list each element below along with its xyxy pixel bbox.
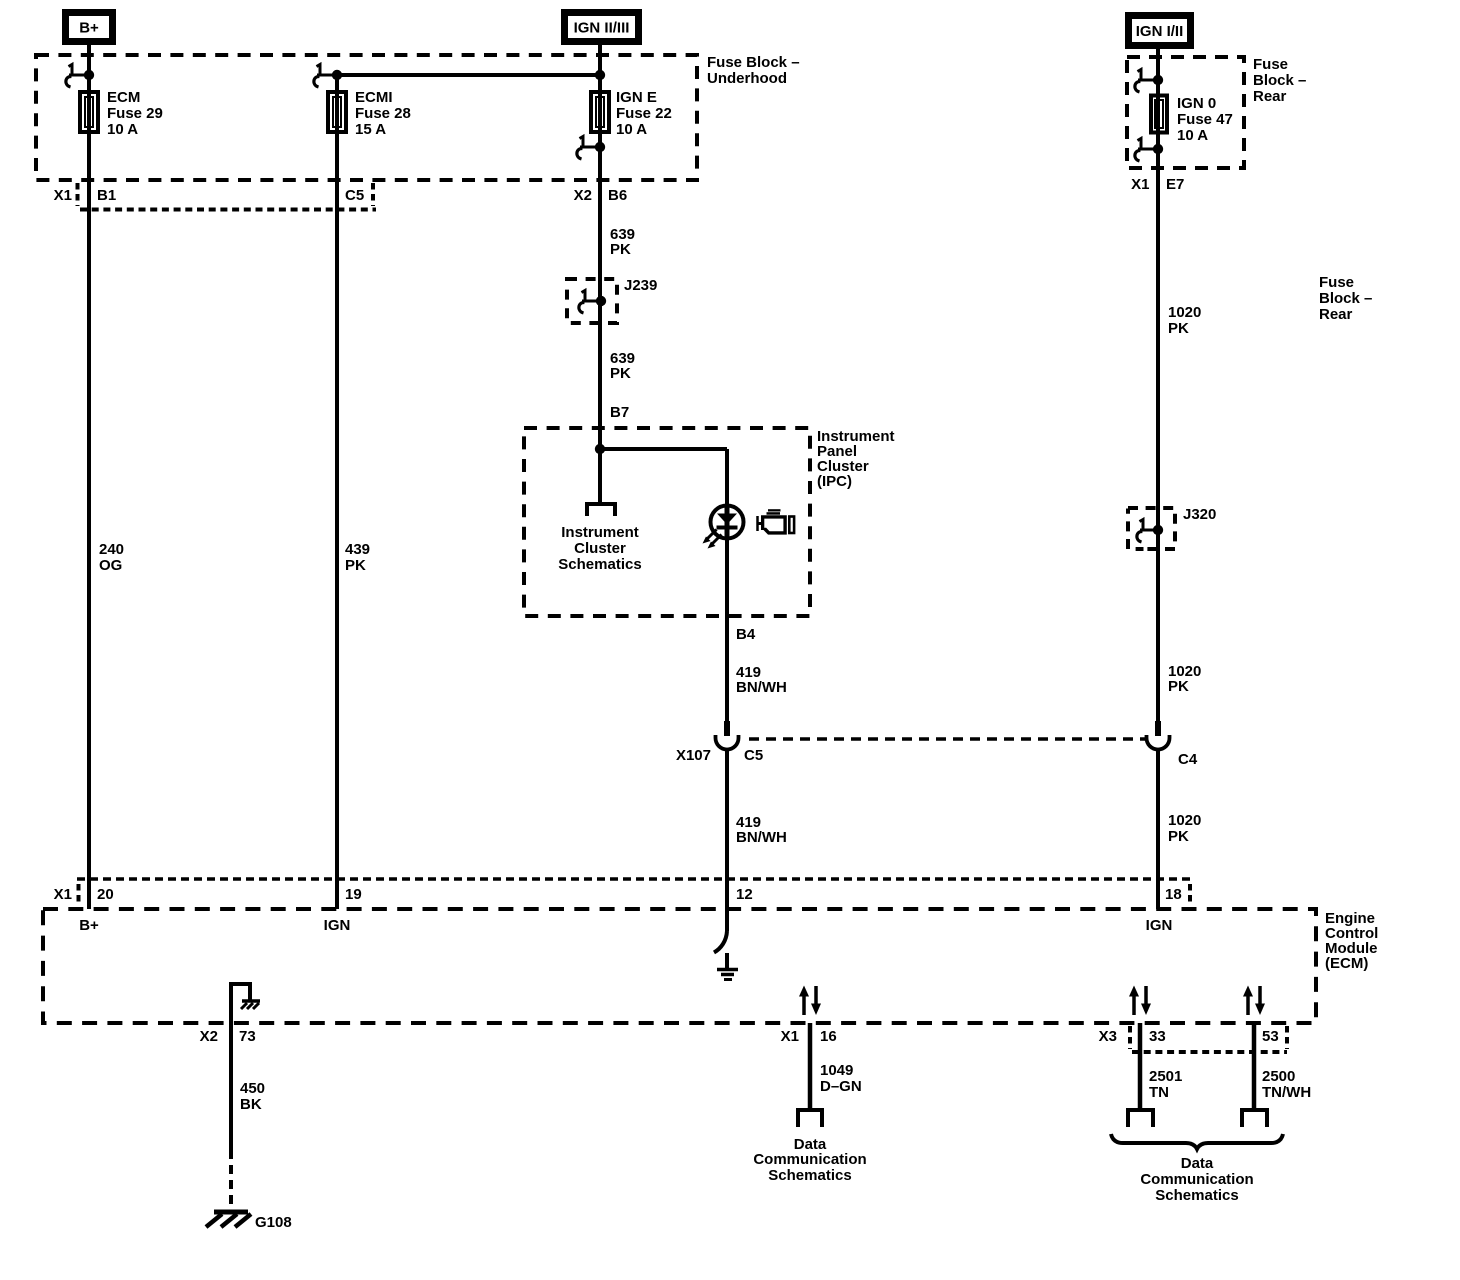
fuse IGN E Fuse 22	[591, 92, 609, 132]
svg-text:IGN: IGN	[1146, 917, 1173, 934]
svg-text:B1: B1	[97, 187, 116, 204]
label ECM Fuse 29 10 A	[107, 89, 163, 138]
svg-text:Rear: Rear	[1319, 306, 1353, 323]
label Engine Control Module (ECM)	[1325, 910, 1378, 972]
off-page fork at pin 53	[1240, 1110, 1269, 1127]
svg-text:(ECM): (ECM)	[1325, 955, 1368, 972]
svg-text:240: 240	[99, 541, 124, 558]
svg-text:1020: 1020	[1168, 812, 1201, 829]
ECM internal ground symbol	[717, 953, 738, 980]
inline connector X107 C5 male stub	[724, 721, 730, 736]
svg-text:53: 53	[1262, 1028, 1279, 1045]
terminal hook below IGN 0 fuse	[1135, 139, 1158, 162]
svg-text:X1: X1	[1131, 176, 1149, 193]
svg-text:12: 12	[736, 886, 753, 903]
indicator LED lamp	[703, 506, 744, 549]
svg-text:Instrument: Instrument	[561, 524, 639, 541]
instrument panel cluster dashed outline	[524, 428, 810, 616]
svg-text:IGN II/III: IGN II/III	[574, 20, 630, 37]
svg-text:B+: B+	[79, 20, 99, 37]
svg-text:X2: X2	[200, 1028, 218, 1045]
label Data Communication Schematics left	[753, 1136, 866, 1184]
wire label 1020 PK lower	[1168, 812, 1201, 845]
svg-text:IGN E: IGN E	[616, 89, 657, 106]
wire B+ to ECM pin 20 (240 OG column)	[87, 45, 91, 909]
ECM internal chassis ground at pin 73	[229, 982, 260, 1009]
svg-text:Schematics: Schematics	[1155, 1187, 1238, 1204]
label IGN 0 Fuse 47 10 A	[1177, 95, 1233, 144]
wire label 450 BK	[240, 1080, 265, 1113]
wire label 419 BN/WH lower	[736, 814, 787, 846]
wire label 2500 TN/WH	[1262, 1068, 1311, 1101]
fuse block rear dashed outline	[1127, 57, 1244, 168]
junction dot above IGN 0 fuse	[1153, 75, 1163, 85]
junction dot inside IPC	[595, 444, 605, 454]
svg-text:X1: X1	[54, 886, 72, 903]
svg-text:Schematics: Schematics	[768, 1167, 851, 1184]
ECM dashed outline	[43, 909, 1316, 1023]
off-page fork at pin 16	[796, 1110, 824, 1127]
connector row X1/B1/C5/X2/B6 dotted box	[78, 183, 377, 210]
svg-text:Underhood: Underhood	[707, 70, 787, 87]
svg-text:Fuse 47: Fuse 47	[1177, 111, 1233, 128]
svg-text:18: 18	[1165, 886, 1182, 903]
wire label 639 PK upper	[610, 226, 635, 258]
splice J320 dashed box	[1128, 508, 1175, 549]
svg-text:(IPC): (IPC)	[817, 473, 852, 490]
wire label 240 OG	[99, 541, 124, 574]
label Instrument Panel Cluster (IPC)	[817, 428, 895, 490]
node IGN I/II supply box	[1125, 12, 1194, 49]
label Fuse Block Underhood	[707, 54, 800, 87]
fuse block underhood dashed outline	[36, 55, 697, 180]
svg-text:Fuse 22: Fuse 22	[616, 105, 672, 122]
svg-text:Cluster: Cluster	[574, 540, 626, 557]
svg-text:B4: B4	[736, 626, 756, 643]
wire label 439 PK	[345, 541, 370, 574]
svg-text:E7: E7	[1166, 176, 1184, 193]
junction dot at IGN E fuse feed	[595, 70, 605, 80]
svg-text:33: 33	[1149, 1028, 1166, 1045]
junction dot at ECMI fuse feed	[332, 70, 342, 80]
label IGN E Fuse 22 10 A	[616, 89, 672, 138]
wire ECMI fuse to ECM pin 19 (439 PK column)	[335, 75, 339, 909]
svg-text:Fuse Block –: Fuse Block –	[707, 54, 800, 71]
junction dot at ECM fuse feed	[84, 70, 94, 80]
label Instrument Cluster Schematics	[558, 524, 641, 573]
svg-text:15 A: 15 A	[355, 121, 386, 138]
wire below X107 C5	[725, 749, 729, 909]
wire pin 73 dashed continuation	[229, 1150, 233, 1205]
connector X1 dotted separator left	[77, 884, 81, 905]
bidirectional arrows at pin 33	[1129, 986, 1151, 1016]
svg-text:PK: PK	[610, 241, 631, 258]
svg-text:PK: PK	[1168, 828, 1189, 845]
svg-text:PK: PK	[610, 365, 631, 382]
svg-text:Communication: Communication	[753, 1151, 866, 1168]
inline connector C4 female arc	[1147, 735, 1170, 750]
svg-text:IGN 0: IGN 0	[1177, 95, 1216, 112]
svg-text:B+: B+	[79, 917, 99, 934]
svg-text:OG: OG	[99, 557, 122, 574]
node IGN II/III supply box	[561, 9, 642, 45]
svg-text:X107: X107	[676, 747, 711, 764]
ECM internal switch blade at pin 12	[714, 909, 727, 953]
junction dot at J239	[596, 296, 606, 306]
wire label 1049 D-GN	[820, 1062, 862, 1095]
wire IGN I/II down through IGN 0 fuse (1020 PK column)	[1156, 49, 1160, 735]
svg-text:X3: X3	[1099, 1028, 1117, 1045]
terminal hook at J320	[1137, 520, 1158, 543]
svg-text:1049: 1049	[820, 1062, 853, 1079]
fuse ECMI Fuse 28	[328, 92, 346, 132]
brace grouping data pins	[1111, 1134, 1283, 1149]
junction dot at J320	[1153, 525, 1163, 535]
svg-text:Block –: Block –	[1253, 72, 1306, 89]
wire label 1020 PK middle	[1168, 663, 1201, 695]
inline connector C4 male stub	[1155, 721, 1161, 736]
svg-text:C5: C5	[744, 747, 763, 764]
svg-text:BN/WH: BN/WH	[736, 829, 787, 846]
terminal hook at ECM fuse	[66, 65, 89, 88]
svg-text:G108: G108	[255, 1214, 292, 1231]
svg-text:Block –: Block –	[1319, 290, 1372, 307]
svg-text:J320: J320	[1183, 506, 1216, 523]
wire below C4	[1156, 749, 1160, 909]
svg-text:Schematics: Schematics	[558, 556, 641, 573]
wire label 1020 PK upper	[1168, 304, 1201, 337]
splice J239 dashed box	[567, 279, 617, 323]
connector dotted separator right of pin 18	[1188, 884, 1192, 905]
svg-text:Fuse 29: Fuse 29	[107, 105, 163, 122]
svg-text:PK: PK	[345, 557, 366, 574]
off-page fork to instrument cluster schematics	[585, 504, 617, 516]
wire pin 53 (2500 TN/WH)	[1252, 1023, 1257, 1110]
inline connector X107 C5 female arc	[716, 735, 739, 750]
svg-text:1020: 1020	[1168, 304, 1201, 321]
svg-text:73: 73	[239, 1028, 256, 1045]
svg-text:10 A: 10 A	[616, 121, 647, 138]
fuse IGN 0 Fuse 47	[1151, 96, 1167, 133]
svg-text:IGN I/II: IGN I/II	[1136, 23, 1184, 40]
junction dot below IGN E fuse	[595, 142, 605, 152]
label Fuse Block Rear (upper)	[1253, 56, 1306, 105]
svg-text:10 A: 10 A	[107, 121, 138, 138]
svg-text:Rear: Rear	[1253, 88, 1287, 105]
svg-text:B7: B7	[610, 404, 629, 421]
svg-text:C5: C5	[345, 187, 364, 204]
svg-text:BN/WH: BN/WH	[736, 679, 787, 696]
wire IPC to indicator	[725, 449, 729, 735]
svg-text:ECM: ECM	[107, 89, 140, 106]
svg-text:2500: 2500	[1262, 1068, 1295, 1085]
svg-text:B6: B6	[608, 187, 627, 204]
svg-text:PK: PK	[1168, 678, 1189, 695]
inline connector dashed tie line C5 to C4	[749, 737, 1147, 741]
check engine icon	[758, 509, 795, 534]
svg-text:439: 439	[345, 541, 370, 558]
wire pin 73 to G108 solid	[229, 984, 233, 1150]
connector X1 dotted row line	[77, 877, 1193, 881]
label Data Communication Schematics right	[1140, 1155, 1253, 1204]
svg-text:TN: TN	[1149, 1084, 1169, 1101]
svg-text:450: 450	[240, 1080, 265, 1097]
wire bus IGN II/III to ECMI fuse	[337, 73, 600, 77]
svg-text:X1: X1	[781, 1028, 799, 1045]
wire label 419 BN/WH upper	[736, 664, 787, 696]
svg-text:20: 20	[97, 886, 114, 903]
svg-text:PK: PK	[1168, 320, 1189, 337]
svg-text:19: 19	[345, 886, 362, 903]
svg-text:Fuse 28: Fuse 28	[355, 105, 411, 122]
svg-text:2501: 2501	[1149, 1068, 1182, 1085]
junction dot below IGN 0 fuse	[1153, 144, 1163, 154]
svg-text:J239: J239	[624, 277, 657, 294]
fuse ECM Fuse 29	[80, 92, 98, 132]
svg-text:Fuse: Fuse	[1253, 56, 1288, 73]
wire label 2501 TN	[1149, 1068, 1182, 1101]
wire label 639 PK lower	[610, 350, 635, 382]
wire pin 16 (1049 D-GN)	[808, 1023, 813, 1110]
terminal hook above IGN 0 fuse	[1135, 70, 1158, 93]
svg-text:16: 16	[820, 1028, 837, 1045]
ground G108	[206, 1212, 251, 1227]
svg-text:X1: X1	[54, 187, 72, 204]
svg-text:TN/WH: TN/WH	[1262, 1084, 1311, 1101]
svg-text:X2: X2	[574, 187, 592, 204]
node B+ supply box	[62, 9, 116, 45]
bidirectional arrows at pin 16	[799, 986, 821, 1016]
label ECMI Fuse 28 15 A	[355, 89, 411, 138]
svg-text:10 A: 10 A	[1177, 127, 1208, 144]
terminal hook below IGN E fuse	[577, 137, 600, 160]
wire IGN II/III down through IGN E fuse to IPC	[598, 45, 602, 503]
svg-text:Fuse: Fuse	[1319, 274, 1354, 291]
label Fuse Block Rear (lower)	[1319, 274, 1372, 323]
off-page fork at pin 33	[1126, 1110, 1155, 1127]
terminal hook at ECMI fuse	[314, 65, 337, 88]
svg-text:BK: BK	[240, 1096, 262, 1113]
terminal hook at J239	[579, 291, 601, 314]
svg-text:Data: Data	[1181, 1155, 1214, 1172]
svg-text:Communication: Communication	[1140, 1171, 1253, 1188]
bidirectional arrows at pin 53	[1243, 986, 1265, 1016]
svg-text:IGN: IGN	[324, 917, 351, 934]
wire IPC internal horizontal	[600, 447, 727, 451]
svg-text:D–GN: D–GN	[820, 1078, 862, 1095]
svg-text:ECMI: ECMI	[355, 89, 393, 106]
wire pin 33 (2501 TN)	[1138, 1023, 1143, 1110]
connector X3 dotted box	[1130, 1026, 1287, 1052]
svg-text:C4: C4	[1178, 751, 1198, 768]
